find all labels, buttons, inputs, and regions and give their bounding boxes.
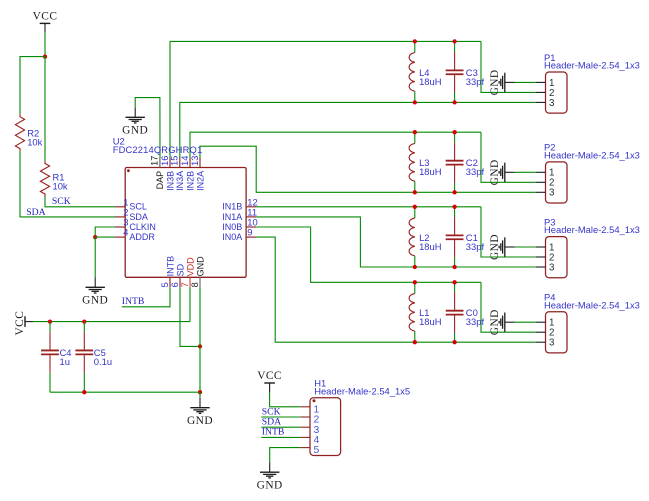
svg-text:GND: GND — [489, 309, 501, 335]
svg-text:IN2A: IN2A — [195, 171, 205, 191]
U2 pin 3 CLKIN — [115, 217, 156, 232]
svg-text:33pf: 33pf — [466, 166, 485, 177]
svg-text:DAP: DAP — [155, 171, 165, 190]
capacitor C3 — [446, 41, 485, 102]
svg-text:CLKIN: CLKIN — [129, 222, 156, 232]
ground U2 ADDR — [82, 277, 108, 306]
svg-text:IN0B: IN0B — [222, 222, 242, 232]
wire to R1 — [44, 57, 46, 161]
svg-text:33pf: 33pf — [466, 316, 485, 327]
P2 pin 3 — [536, 188, 555, 199]
H1 pin 2 — [300, 415, 319, 426]
wire IN3A rail bottom — [180, 102, 536, 158]
junction C0 bottom — [452, 340, 456, 344]
connector P4 — [544, 292, 640, 353]
capacitor C2 — [446, 132, 485, 192]
svg-text:3: 3 — [549, 188, 555, 199]
wire H1 pin5 to GND — [270, 448, 301, 463]
svg-text:18uH: 18uH — [419, 241, 441, 252]
U2 pin 16 IN3B — [160, 156, 176, 191]
wire IN3B rail top — [170, 41, 481, 158]
connector P1 — [544, 52, 640, 113]
U2 pin 15 IN3A — [170, 156, 186, 191]
inductor L3 — [409, 132, 441, 192]
svg-text:Header-Male-2.54_1x3: Header-Male-2.54_1x3 — [544, 150, 640, 161]
svg-text:7: 7 — [180, 282, 190, 287]
junction L2 bottom — [413, 265, 417, 269]
capacitor C0 — [446, 282, 485, 342]
svg-text:17: 17 — [150, 156, 160, 166]
svg-text:5: 5 — [160, 282, 170, 287]
wire IN2B rail top — [190, 132, 481, 158]
wire P4 drop — [481, 282, 536, 332]
junction C1 bottom — [452, 265, 456, 269]
H1 pin 1 — [300, 404, 319, 415]
net label INTB (INTB left) — [122, 296, 145, 307]
junction C3 top — [452, 39, 456, 43]
P3 pin 3 — [536, 262, 555, 273]
svg-text:14: 14 — [180, 156, 190, 166]
svg-text:10k: 10k — [53, 181, 68, 192]
junction L3 top — [413, 130, 417, 134]
P1 pin 1 — [536, 78, 555, 89]
svg-text:10k: 10k — [27, 137, 42, 148]
resistor R2 — [15, 114, 42, 151]
svg-text:0.1u: 0.1u — [94, 356, 112, 367]
H1 pin 5 — [300, 445, 319, 456]
svg-text:SD: SD — [175, 263, 185, 276]
junction L2 top — [413, 205, 417, 209]
svg-text:Header-Male-2.54_1x3: Header-Male-2.54_1x3 — [544, 299, 640, 310]
ground U2 GND — [187, 398, 213, 427]
wire P1 drop — [481, 41, 536, 92]
svg-text:Header-Male-2.54_1x5: Header-Male-2.54_1x5 — [314, 385, 410, 396]
svg-text:Header-Male-2.54_1x3: Header-Male-2.54_1x3 — [544, 60, 640, 71]
U2 pin 2 SDA — [115, 207, 148, 222]
P1 pin 2 — [536, 88, 555, 99]
junction C2 bottom — [452, 190, 456, 194]
svg-text:INTB: INTB — [262, 427, 285, 438]
wire R1 to SCK/pin1 — [45, 197, 115, 207]
U2 pin 12 IN1B — [222, 196, 257, 211]
svg-text:15: 15 — [170, 156, 180, 166]
P1 pin 3 — [536, 98, 555, 109]
ground P3 — [489, 234, 515, 260]
svg-text:INTB: INTB — [165, 256, 175, 277]
svg-text:16: 16 — [160, 156, 170, 166]
ground U2 DAP — [122, 107, 148, 136]
svg-text:GND: GND — [187, 415, 213, 427]
P2 pin 2 — [536, 178, 555, 189]
op-amp U2 FDC2214 body — [113, 135, 246, 277]
junction L1 top — [413, 280, 417, 284]
svg-text:SCK: SCK — [52, 196, 71, 207]
svg-text:GND: GND — [257, 479, 283, 491]
svg-text:SDA: SDA — [129, 212, 148, 222]
junction C5 bottom — [82, 390, 86, 394]
junction L3 bottom — [413, 190, 417, 194]
svg-text:VCC: VCC — [14, 311, 26, 336]
svg-text:GND: GND — [489, 69, 501, 95]
junction L4 bottom — [413, 100, 417, 104]
power VCC left — [14, 311, 33, 336]
capacitor C5 — [75, 322, 112, 393]
junction L4 top — [413, 39, 417, 43]
power VCC top — [33, 10, 58, 32]
wire VDD down — [189, 287, 191, 322]
svg-text:VDD: VDD — [185, 257, 195, 277]
junction VCC split — [43, 54, 47, 58]
wire GND pin8 down — [199, 287, 201, 392]
connector P3 — [544, 216, 640, 277]
U2 pin 4 ADDR — [115, 227, 155, 242]
svg-text:3: 3 — [549, 98, 555, 109]
junction C0 top — [452, 280, 456, 284]
wire P3 drop — [481, 207, 536, 257]
junction C4 top — [48, 319, 52, 323]
ground P2 — [489, 159, 515, 185]
connector P2 — [544, 142, 640, 203]
svg-text:8: 8 — [190, 282, 200, 287]
svg-text:4: 4 — [123, 227, 128, 238]
svg-text:IN1A: IN1A — [222, 212, 242, 222]
junction C3 bottom — [452, 100, 456, 104]
junction SD/GND — [198, 344, 202, 348]
wire DAP to GND — [135, 98, 160, 158]
svg-text:GND: GND — [82, 295, 108, 307]
P4 pin 3 — [536, 338, 555, 349]
U2 pin 5 INTB — [160, 256, 176, 288]
svg-text:GND: GND — [489, 159, 501, 185]
svg-text:INTB: INTB — [122, 296, 145, 307]
svg-text:GND: GND — [195, 256, 205, 277]
wire IN1A rail bottom — [256, 217, 536, 267]
wire P1 pin1 to GND — [515, 81, 536, 83]
svg-text:IN0A: IN0A — [222, 232, 242, 242]
U2 pin 6 SD — [170, 263, 186, 287]
wire INTB to pin5 — [122, 287, 170, 307]
wire VCC to H1 pin1 — [270, 392, 301, 407]
svg-text:18uH: 18uH — [419, 76, 441, 87]
junction GND rail — [198, 390, 202, 394]
wire SD down — [180, 287, 200, 346]
wire node down — [94, 237, 96, 277]
wire P3 pin1 to GND — [515, 246, 536, 248]
junction CLKIN/ADDR — [93, 235, 97, 239]
wire GND rail — [50, 391, 200, 393]
U2 pin 13 IN2A — [190, 156, 206, 191]
P3 pin 1 — [536, 242, 555, 253]
svg-text:SCL: SCL — [129, 202, 147, 212]
wire CLKIN to node — [95, 227, 115, 237]
junction C5 top — [82, 319, 86, 323]
svg-text:GND: GND — [122, 125, 148, 137]
wire IN1B rail top — [256, 206, 481, 208]
capacitor C4 — [41, 322, 71, 393]
P3 pin 2 — [536, 252, 555, 263]
net label SCK (SCK H1) — [262, 406, 281, 417]
wire to R2 — [20, 57, 45, 115]
wire VCC to junction — [44, 33, 46, 57]
svg-text:9: 9 — [247, 227, 252, 238]
svg-text:SDA: SDA — [26, 207, 45, 218]
wire ADDR to node — [95, 236, 115, 238]
svg-text:3: 3 — [549, 262, 555, 273]
svg-text:IN2B: IN2B — [185, 171, 195, 191]
inductor L1 — [409, 282, 441, 342]
ground P1 — [489, 69, 515, 95]
resistor R1 — [40, 161, 68, 197]
U2 pin 10 IN0B — [222, 217, 257, 232]
svg-text:GND: GND — [489, 234, 501, 260]
P4 pin 2 — [536, 328, 555, 339]
svg-text:18uH: 18uH — [419, 316, 441, 327]
svg-text:ADDR: ADDR — [129, 232, 155, 242]
U2 pin 11 IN1A — [222, 207, 257, 222]
wire SDA to H1 pin3 — [261, 426, 300, 428]
svg-text:5: 5 — [314, 445, 320, 456]
wire IN0A rail bottom — [256, 237, 536, 342]
U2 pin 17 DAP — [150, 156, 166, 190]
wire gnd stub — [199, 392, 201, 398]
wire SCK to H1 pin2 — [261, 416, 300, 418]
inductor L2 — [409, 207, 441, 267]
wire P2 drop — [481, 132, 536, 182]
svg-text:3: 3 — [549, 338, 555, 349]
svg-text:33pf: 33pf — [466, 76, 485, 87]
wire R2 to SDA/pin2 — [20, 151, 115, 217]
svg-text:6: 6 — [170, 282, 180, 287]
capacitor C1 — [446, 207, 485, 267]
junction C1 top — [452, 205, 456, 209]
net label SCK (SCK left) — [52, 196, 71, 207]
P4 pin 1 — [536, 318, 555, 329]
H1 pin 4 — [300, 435, 319, 446]
U2 pin 9 IN0A — [222, 227, 256, 242]
wire INTB to H1 pin4 — [261, 436, 300, 438]
svg-text:VCC: VCC — [33, 10, 58, 22]
ground H1 — [257, 462, 283, 491]
net label INTB (INTB H1) — [262, 427, 285, 438]
ground P4 — [489, 309, 515, 335]
U2 pin 14 IN2B — [180, 156, 196, 191]
svg-text:33pf: 33pf — [466, 241, 485, 252]
wire IN0B rail top — [256, 227, 481, 282]
wire P2 pin1 to GND — [515, 171, 536, 173]
wire IN2A rail bottom — [200, 146, 536, 192]
svg-text:Header-Male-2.54_1x3: Header-Male-2.54_1x3 — [544, 224, 640, 235]
P2 pin 1 — [536, 168, 555, 179]
U2 pin 1 SCL — [115, 196, 147, 211]
svg-text:FDC2214QRGHRQ1: FDC2214QRGHRQ1 — [113, 144, 203, 155]
connector H1 — [310, 378, 410, 456]
U2 pin 7 VDD — [180, 257, 196, 288]
svg-text:IN1B: IN1B — [222, 202, 242, 212]
junction C2 top — [452, 130, 456, 134]
svg-text:18uH: 18uH — [419, 166, 441, 177]
net label SDA (SDA left) — [26, 207, 45, 218]
svg-text:1u: 1u — [60, 356, 70, 367]
wire VCC rail — [33, 321, 190, 323]
junction L1 bottom — [413, 340, 417, 344]
svg-text:VCC: VCC — [257, 370, 282, 382]
svg-text:13: 13 — [190, 156, 200, 166]
svg-text:IN3A: IN3A — [175, 171, 185, 191]
net label SDA (SDA H1) — [262, 417, 281, 428]
wire P4 pin1 to GND — [515, 321, 536, 323]
svg-text:IN3B: IN3B — [165, 171, 175, 191]
inductor L4 — [409, 41, 441, 102]
power VCC H1 — [257, 370, 282, 392]
H1 pin 3 — [300, 425, 319, 436]
U2 pin 8 GND — [190, 256, 206, 288]
